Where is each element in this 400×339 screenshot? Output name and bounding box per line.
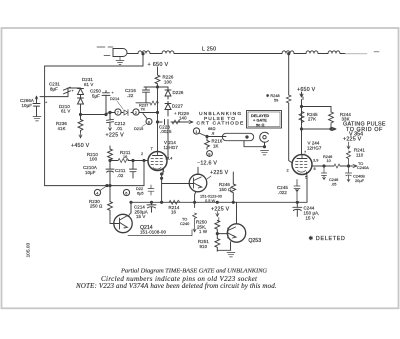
svg-text:8: 8 [148, 119, 150, 124]
svg-text:50 Ω: 50 Ω [256, 122, 264, 127]
svg-text:✱ DELETED: ✱ DELETED [309, 236, 346, 242]
diode D214 [124, 110, 128, 116]
svg-text:C240: C240 [180, 221, 190, 226]
wire B grid row [110, 160, 148, 162]
wire: delay line [133, 53, 345, 55]
wire: cathode [162, 170, 163, 203]
svg-text:59: 59 [274, 98, 278, 103]
ground (C266A) [33, 117, 41, 121]
svg-text:4: 4 [96, 190, 99, 195]
wire: Q214 collector [128, 203, 131, 217]
wire: tube V244 cathode drop [306, 172, 309, 176]
svg-text:D227: D227 [172, 104, 183, 109]
zener D210 [78, 98, 84, 115]
connector BNC [260, 132, 269, 142]
svg-text:110: 110 [356, 152, 364, 157]
svg-text:.01: .01 [116, 126, 123, 131]
capacitor C246 [321, 166, 327, 179]
wire C junction [106, 185, 108, 187]
svg-text:7K: 7K [141, 107, 146, 112]
resistor R236 [78, 115, 83, 132]
wire: plate spine [157, 84, 159, 151]
zener D231 [78, 89, 84, 98]
resistor R245 [299, 112, 304, 123]
resistor R248 [286, 95, 291, 103]
wire: gating pulse out [302, 127, 337, 130]
pin 4 [94, 189, 100, 195]
svg-text:8μF: 8μF [50, 87, 58, 92]
svg-text:.8: .8 [211, 131, 214, 136]
svg-text:3,9: 3,9 [313, 158, 318, 163]
resistor R250 [215, 221, 220, 234]
svg-text:6: 6 [125, 190, 127, 195]
svg-text:16: 16 [171, 210, 177, 215]
svg-text:12HG7: 12HG7 [307, 146, 322, 151]
inductor L250 coil 3 [282, 51, 294, 54]
node: to C240A [352, 164, 357, 167]
wire [244, 141, 265, 147]
svg-text:151-0108-00: 151-0108-00 [140, 230, 166, 235]
wire: Q243 emitter down / TO C240 [195, 192, 196, 208]
svg-text:41K: 41K [58, 126, 66, 131]
wire: Q243 collector [197, 167, 199, 174]
wire: unblanking out [158, 121, 189, 123]
wire: screen stub [166, 122, 168, 159]
capacitor C211 [130, 161, 137, 179]
svg-text:16: 16 [123, 154, 127, 159]
resistor R226 [155, 75, 160, 84]
wire [40, 88, 68, 97]
svg-text:15 V: 15 V [136, 214, 145, 219]
svg-text:Partial Diagram TIME-BASE GATE: Partial Diagram TIME-BASE GATE and UNBLA… [120, 268, 267, 275]
wire arrow [188, 120, 193, 123]
resistor R244 [329, 112, 334, 129]
svg-text:D214: D214 [110, 96, 120, 101]
wire: long bottom bus [131, 176, 307, 202]
resistor R247 150ohm [231, 172, 236, 202]
capacitor C212 [107, 113, 114, 127]
wire [144, 86, 168, 88]
ground (Q253) [227, 253, 235, 257]
pin 7 [115, 109, 121, 115]
pin 2 [133, 109, 139, 115]
svg-text:D226: D226 [173, 90, 184, 95]
wire [136, 102, 150, 104]
resistor R214 [169, 200, 180, 204]
capacitor C244 [293, 202, 302, 216]
svg-text:+450 V: +450 V [71, 143, 90, 149]
svg-text:+: + [45, 100, 48, 105]
pin 9 [207, 151, 213, 157]
svg-text:10μF: 10μF [85, 170, 96, 175]
resistor R241 [347, 151, 351, 165]
resistor R211 [118, 159, 129, 163]
svg-text:+225 V: +225 V [106, 132, 125, 138]
diode D227 [165, 102, 171, 117]
svg-text:27K: 27K [308, 116, 316, 121]
svg-text:.02: .02 [117, 173, 124, 178]
svg-text:Q253: Q253 [248, 238, 261, 244]
capacitor C214 [147, 202, 156, 212]
wire: drop from delay line [289, 54, 292, 163]
resistor R237 [150, 101, 159, 105]
svg-text:.0025: .0025 [160, 129, 172, 134]
svg-text:105.03: 105.03 [26, 242, 32, 257]
svg-text:T: T [151, 146, 154, 151]
svg-text:100: 100 [164, 80, 172, 85]
wire node A [81, 114, 107, 116]
svg-text:−12.6 V: −12.6 V [197, 161, 217, 167]
svg-text:33K: 33K [342, 116, 350, 121]
svg-text:+650 V: +650 V [297, 87, 316, 93]
wire to gate connector [207, 136, 226, 138]
wire: feedback box top edge [45, 54, 143, 66]
node +450V [79, 132, 82, 138]
junction: delay line taps [142, 53, 144, 55]
capacitor C240B [345, 167, 351, 181]
svg-text:1 W: 1 W [199, 229, 208, 234]
wire: Q243 base [162, 183, 194, 185]
resistor R251 [215, 234, 220, 252]
svg-text:140: 140 [179, 116, 187, 121]
svg-text:61 V: 61 V [61, 108, 70, 113]
svg-text:NOTE: V223 and V374A have bee: NOTE: V223 and V374A have been deleted f… [75, 282, 277, 290]
transistor Q253 [227, 224, 245, 242]
pin 8 [143, 114, 147, 119]
svg-text:12HG7: 12HG7 [164, 145, 179, 150]
svg-text:L 250: L 250 [202, 46, 216, 52]
svg-text:9: 9 [208, 151, 210, 156]
box: delayed gate [247, 111, 282, 129]
svg-text:CRT CATHODE: CRT CATHODE [197, 121, 245, 127]
wire: Q253 emitter to ground [217, 242, 231, 251]
svg-text:+225 V: +225 V [211, 207, 230, 213]
svg-text:.022: .022 [278, 190, 287, 195]
connector plug [222, 133, 253, 140]
svg-text:2: 2 [287, 168, 289, 173]
ground (coax) [116, 57, 124, 65]
wire [68, 87, 81, 89]
svg-text:6μ5: 6μ5 [137, 191, 144, 196]
svg-text:1K: 1K [213, 143, 219, 148]
transistor Q214 [114, 214, 132, 232]
svg-text:2: 2 [135, 110, 137, 115]
capacitor C216 [143, 87, 150, 103]
capacitor C210A [106, 161, 114, 186]
node +225V [109, 128, 112, 131]
svg-text:+: + [72, 88, 75, 93]
transistor Q243 [189, 174, 207, 192]
svg-text:0.5 W: 0.5 W [205, 198, 215, 203]
wire A pins row [106, 113, 158, 114]
svg-text:C240A: C240A [357, 165, 369, 170]
vacuum tube V244 [292, 155, 312, 175]
capacitor C217 [148, 185, 154, 195]
svg-text:.22: .22 [127, 93, 134, 98]
wire [302, 100, 332, 155]
svg-text:7: 7 [117, 110, 119, 115]
svg-text:10μF: 10μF [22, 103, 33, 108]
resistor R210 [108, 146, 113, 160]
diode D226 [165, 87, 171, 99]
svg-text:.05: .05 [331, 182, 336, 187]
svg-text:8: 8 [314, 166, 316, 171]
svg-text:20μF: 20μF [355, 178, 365, 183]
wire: bottom bus to grid network [45, 161, 144, 186]
wire: Q253 collector [236, 202, 238, 224]
svg-text:15 V: 15 V [306, 216, 315, 221]
svg-text:D215: D215 [134, 126, 143, 131]
svg-text:+ 650 V: + 650 V [148, 62, 169, 68]
pin 1 [193, 128, 199, 134]
svg-text:250 Ω: 250 Ω [90, 203, 102, 208]
capacitor C231 [63, 87, 70, 94]
resistor R230 [108, 186, 113, 215]
capacitor C266A [33, 97, 40, 117]
svg-text:100: 100 [90, 157, 98, 162]
svg-text:5μF: 5μF [92, 93, 100, 98]
svg-text:61 V: 61 V [84, 82, 93, 87]
inductor L250 coil 5 [328, 51, 340, 54]
svg-text:+225 V: +225 V [210, 170, 229, 176]
svg-text:150 Ω: 150 Ω [219, 187, 231, 192]
ground (BNC) [261, 151, 269, 155]
wire: Q253 base [217, 233, 228, 235]
coax input connector [97, 46, 113, 48]
pin 6 [123, 189, 129, 195]
inductor L250 coil 4 [306, 51, 318, 54]
resistor R216 [205, 137, 210, 150]
svg-text:+: + [112, 90, 115, 95]
wire: feedback box left edge [44, 66, 46, 186]
resistor R246 [334, 164, 340, 168]
inductor L250 coil 2 [162, 51, 174, 54]
svg-text:2: 2 [141, 151, 143, 156]
capacitor C228 [165, 120, 169, 125]
capacitor C250 [102, 91, 110, 115]
svg-text:+225 V: +225 V [343, 136, 362, 142]
svg-text:1: 1 [195, 129, 197, 134]
vacuum tube V214 [148, 152, 167, 171]
inductor L250 coil 1 [138, 51, 150, 54]
svg-text:910: 910 [200, 244, 208, 249]
capacitor C245 [294, 180, 300, 201]
svg-text:7: 7 [304, 150, 306, 155]
wire: plate row [312, 165, 356, 167]
